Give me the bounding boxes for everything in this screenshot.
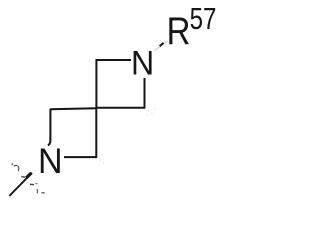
bond C3-C4 left edge of upper azetidine ring: [95, 59, 97, 108]
scan speckles near lower ring corner: [99, 159, 105, 166]
wavy attachment-point line fragment: end dash: [41, 192, 44, 194]
svg-text:N: N: [131, 44, 154, 82]
attachment bond faint continuation toward N6: [33, 170, 37, 173]
bond N2-R57 (faint scanned diagonal): [155, 41, 168, 51]
wavy attachment-point line fragment: upper curve: [14, 164, 17, 167]
wavy attachment-point line fragment: lower hook: [36, 189, 38, 193]
bond C4-C7 right edge of lower azetidine ring: [95, 108, 97, 157]
wire: [48, 59, 145, 157]
wavy attachment-point line fragment: small dash: [35, 182, 37, 185]
attachment bond from N6 to open valence: [9, 173, 32, 196]
bond C1-C4 bottom edge of upper azetidine ring: [96, 107, 145, 109]
wavy attachment-point line fragment: dash below bond: [30, 183, 34, 185]
wavy attachment-point line fragment: dash left of bond: [21, 176, 25, 179]
svg-text:R: R: [167, 10, 191, 53]
wavy attachment-point line fragment: dot: [11, 163, 13, 165]
bond C4-C5 top edge of lower azetidine ring: [50, 108, 96, 109]
bond C3-N2 top edge of upper azetidine ring: [96, 59, 131, 61]
bond N2-C1 right edge of upper azetidine ring: [144, 78, 146, 108]
svg-text:N: N: [38, 141, 63, 181]
bond N2-R57 dark middle dash: [160, 43, 164, 46]
bond C5-N6 left edge of lower azetidine ring: [48, 109, 51, 146]
bond C7-N6 bottom edge of lower azetidine ring: [64, 156, 97, 158]
attachment bond thicker upper segment: [26, 173, 31, 178]
wavy attachment-point line fragment: upper hook: [18, 166, 19, 172]
scan speckles near upper ring corner: [146, 108, 155, 115]
scan speckles along N2-R57 bond: [155, 42, 166, 50]
svg-text:57: 57: [190, 1, 217, 36]
